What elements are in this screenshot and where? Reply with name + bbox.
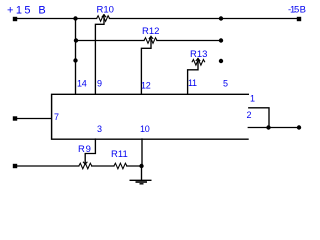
- wire vertical pin14: [75, 19, 77, 94]
- wire R10 wiper to pin 9: [95, 15, 104, 94]
- wire pin 7: [15, 118, 51, 120]
- svg-text:11: 11: [188, 78, 197, 88]
- terminal output: [297, 125, 301, 129]
- svg-text:R11: R11: [111, 149, 128, 160]
- svg-text:7: 7: [54, 112, 59, 122]
- wire pin 10 down: [141, 139, 143, 166]
- resistor R13 (floating trimmer): [192, 59, 205, 66]
- wire ground stem: [141, 166, 143, 180]
- svg-text:12: 12: [141, 81, 151, 91]
- junction second rail/pin14 vertical: [74, 38, 78, 42]
- resistor R10 (trimmer on top rail): [97, 15, 110, 22]
- wire bottom right segment: [127, 165, 142, 167]
- terminal +15V: [13, 17, 17, 21]
- wire top rail right segment: [110, 18, 300, 20]
- junction pin1/pin2 wires: [266, 125, 270, 129]
- junction rail node x221: [219, 16, 223, 20]
- node dot left vertical: [73, 58, 77, 62]
- wire R12 wiper to pin 12: [141, 36, 151, 93]
- svg-text:R13: R13: [190, 49, 207, 60]
- node end of second rail: [219, 38, 223, 42]
- wire pin 2: [248, 127, 299, 129]
- terminal bottom left: [13, 164, 17, 168]
- svg-text:5: 5: [223, 79, 228, 89]
- svg-text:+15 В: +15 В: [7, 5, 48, 17]
- resistor R11 (fixed, bottom wire): [114, 163, 127, 169]
- wire second rail left segment: [76, 40, 144, 42]
- svg-text:1: 1: [250, 94, 255, 104]
- svg-text:2: 2: [247, 110, 252, 120]
- junction pin10/bottom wire: [139, 164, 143, 168]
- wire pin 1: [249, 108, 269, 128]
- ground: [130, 180, 152, 184]
- node dot right column: [219, 59, 223, 63]
- terminal -15V: [297, 17, 301, 21]
- wire second rail right segment: [157, 40, 221, 42]
- svg-text:10: 10: [140, 124, 150, 134]
- junction rail/pin14: [73, 16, 77, 20]
- wire bottom middle segment: [92, 165, 114, 167]
- svg-text:9: 9: [97, 79, 102, 89]
- svg-text:R10: R10: [97, 4, 114, 15]
- wire pin 3 to R9 wiper: [85, 139, 95, 164]
- resistor R12 (trimmer on second rail): [144, 36, 157, 43]
- svg-text:R9: R9: [78, 144, 92, 155]
- svg-text:14: 14: [77, 79, 87, 89]
- terminal pin7 input: [13, 116, 17, 120]
- wire R13 wiper to pin 11: [188, 59, 198, 94]
- wire top rail +15V left segment: [15, 18, 97, 20]
- svg-text:3: 3: [97, 124, 102, 134]
- resistor R9 (trimmer on bottom wire): [79, 162, 92, 169]
- wire bottom left segment: [15, 165, 79, 167]
- svg-text:-15 В: -15 В: [288, 4, 306, 15]
- IC U1 box (open right side): [52, 94, 249, 139]
- svg-text:R12: R12: [142, 26, 159, 37]
